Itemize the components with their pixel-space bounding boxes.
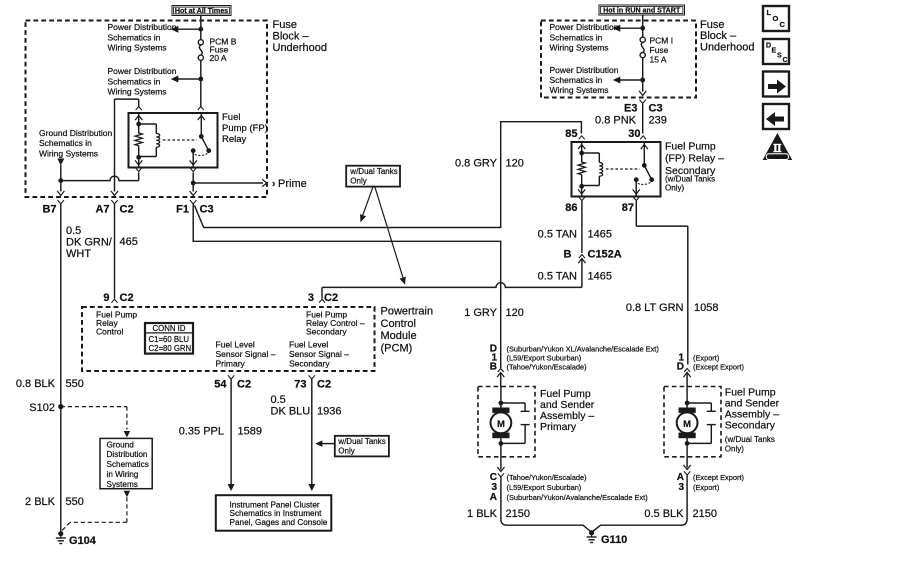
svg-text:w/Dual Tanks: w/Dual Tanks <box>337 437 385 446</box>
svg-text:(Tahoe/Yukon/Escalade): (Tahoe/Yukon/Escalade) <box>507 473 587 482</box>
svg-text:550: 550 <box>66 496 84 508</box>
svg-text:1936: 1936 <box>317 406 341 418</box>
svg-text:Control: Control <box>381 318 416 330</box>
svg-text:30: 30 <box>628 128 640 140</box>
svg-text:C2=80 GRN: C2=80 GRN <box>149 344 192 353</box>
svg-text:C2: C2 <box>317 379 331 391</box>
svg-text:Wiring Systems: Wiring Systems <box>108 86 167 96</box>
svg-text:(w/Dual Tanks: (w/Dual Tanks <box>725 435 775 444</box>
svg-text:1589: 1589 <box>238 426 262 438</box>
svg-text:120: 120 <box>506 158 524 170</box>
svg-text:239: 239 <box>649 115 667 127</box>
svg-text:Only): Only) <box>665 184 684 193</box>
svg-text:Systems: Systems <box>107 480 138 489</box>
svg-text:C1=60 BLU: C1=60 BLU <box>149 335 190 344</box>
svg-text:87: 87 <box>622 202 634 214</box>
svg-text:DK GRN/: DK GRN/ <box>66 237 113 249</box>
svg-text:C3: C3 <box>649 103 663 115</box>
svg-text:(Suburban/Yukon XL/Avalanche/E: (Suburban/Yukon XL/Avalanche/Escalade Ex… <box>507 345 659 354</box>
svg-text:Only: Only <box>338 446 354 455</box>
svg-text:Block –: Block – <box>700 30 737 42</box>
svg-text:54: 54 <box>214 379 227 391</box>
svg-text:C2: C2 <box>120 204 134 216</box>
svg-text:E: E <box>772 48 777 55</box>
svg-text:Ground Distribution: Ground Distribution <box>39 128 113 138</box>
svg-text:86: 86 <box>565 202 577 214</box>
svg-text:(L59/Export Suburban): (L59/Export Suburban) <box>507 353 582 362</box>
svg-text:w/Dual Tanks: w/Dual Tanks <box>349 167 397 176</box>
svg-text:465: 465 <box>120 236 138 248</box>
svg-text:C3: C3 <box>200 204 214 216</box>
svg-text:0.5 TAN: 0.5 TAN <box>538 229 577 241</box>
svg-text:120: 120 <box>506 307 524 319</box>
svg-text:Ground: Ground <box>107 440 135 449</box>
svg-text:C: C <box>783 57 788 64</box>
svg-text:Fuse: Fuse <box>650 45 669 55</box>
svg-text:(Tahoe/Yukon/Escalade): (Tahoe/Yukon/Escalade) <box>507 362 587 371</box>
svg-text:Schematics in: Schematics in <box>108 32 161 42</box>
svg-text:Prime: Prime <box>278 178 307 190</box>
svg-text:2 BLK: 2 BLK <box>25 496 56 508</box>
svg-text:15 A: 15 A <box>650 55 667 65</box>
svg-text:A7: A7 <box>95 204 109 216</box>
svg-text:0.8 PNK: 0.8 PNK <box>595 115 637 127</box>
svg-text:PCM I: PCM I <box>650 36 674 46</box>
svg-text:WHT: WHT <box>66 248 91 260</box>
svg-text:(PCM): (PCM) <box>381 342 413 354</box>
svg-text:(L59/Export Suburban): (L59/Export Suburban) <box>507 483 582 492</box>
svg-text:Underhood: Underhood <box>273 42 327 54</box>
svg-text:Wiring Systems: Wiring Systems <box>39 148 98 158</box>
svg-text:M: M <box>497 419 505 430</box>
svg-text:DK BLU: DK BLU <box>271 406 311 418</box>
svg-text:›: › <box>272 179 275 190</box>
svg-text:Secondary: Secondary <box>289 358 330 368</box>
svg-text:F1: F1 <box>176 204 189 216</box>
svg-text:L: L <box>767 8 772 17</box>
svg-text:B7: B7 <box>42 204 56 216</box>
svg-text:(Export): (Export) <box>693 353 719 362</box>
svg-text:A: A <box>490 492 497 503</box>
svg-text:Power Distribution: Power Distribution <box>108 22 177 32</box>
svg-text:(Export): (Export) <box>693 483 719 492</box>
svg-text:Secondary: Secondary <box>306 327 347 337</box>
svg-text:Primary: Primary <box>540 421 577 433</box>
svg-text:Fuel: Fuel <box>222 112 240 123</box>
svg-text:0.35 PPL: 0.35 PPL <box>179 426 224 438</box>
svg-text:Fuse: Fuse <box>700 19 724 31</box>
svg-text:9: 9 <box>103 292 109 304</box>
svg-text:(FP) Relay –: (FP) Relay – <box>665 153 724 165</box>
svg-text:Secondary: Secondary <box>725 420 776 432</box>
svg-text:Only: Only <box>350 177 366 186</box>
svg-text:B: B <box>490 361 497 372</box>
svg-text:0.8 GRY: 0.8 GRY <box>455 158 498 170</box>
svg-text:Wiring Systems: Wiring Systems <box>108 43 167 53</box>
svg-text:1465: 1465 <box>588 229 612 241</box>
svg-text:2150: 2150 <box>693 508 717 520</box>
svg-text:Distribution: Distribution <box>107 450 148 459</box>
svg-text:Schematics in: Schematics in <box>550 75 603 85</box>
svg-text:550: 550 <box>66 378 84 390</box>
svg-text:Wiring Systems: Wiring Systems <box>550 85 609 95</box>
svg-text:Power Distribution: Power Distribution <box>108 66 177 76</box>
svg-text:Fuse: Fuse <box>273 19 297 31</box>
svg-text:C2: C2 <box>120 292 134 304</box>
svg-text:in Wiring: in Wiring <box>107 470 139 479</box>
svg-text:S102: S102 <box>29 402 55 414</box>
svg-text:O: O <box>773 14 779 23</box>
svg-text:1 GRY: 1 GRY <box>464 307 497 319</box>
svg-text:Primary: Primary <box>216 358 246 368</box>
svg-text:3: 3 <box>678 482 684 493</box>
svg-text:S: S <box>777 53 782 60</box>
svg-text:M: M <box>683 419 691 430</box>
svg-text:Schematics in: Schematics in <box>550 32 603 42</box>
svg-text:0.5 TAN: 0.5 TAN <box>538 271 577 283</box>
svg-text:Hot at All Times: Hot at All Times <box>175 7 228 15</box>
svg-text:Underhood: Underhood <box>700 41 754 53</box>
svg-text:1465: 1465 <box>588 271 612 283</box>
svg-text:Block –: Block – <box>273 31 310 43</box>
svg-text:Hot in RUN and START: Hot in RUN and START <box>603 6 681 14</box>
svg-text:C2: C2 <box>237 379 251 391</box>
svg-text:Pump (FP): Pump (FP) <box>222 123 268 134</box>
svg-text:Fuel Pump: Fuel Pump <box>665 141 716 153</box>
svg-text:Module: Module <box>381 330 417 342</box>
svg-text:E3: E3 <box>624 103 637 115</box>
svg-text:85: 85 <box>565 128 577 140</box>
svg-text:Panel, Gages and Console: Panel, Gages and Console <box>230 518 328 527</box>
svg-text:20 A: 20 A <box>210 53 227 63</box>
svg-text:Schematics: Schematics <box>107 460 149 469</box>
svg-text:Power Distribution: Power Distribution <box>550 22 619 32</box>
svg-text:0.8 BLK: 0.8 BLK <box>16 378 56 390</box>
svg-text:Wiring Systems: Wiring Systems <box>550 43 609 53</box>
svg-text:G104: G104 <box>69 535 97 547</box>
svg-text:(Except Export): (Except Export) <box>693 473 744 482</box>
svg-text:1058: 1058 <box>694 302 718 314</box>
svg-text:D: D <box>766 43 771 50</box>
svg-text:0.8 LT GRN: 0.8 LT GRN <box>626 302 684 314</box>
svg-text:OBD II: OBD II <box>770 155 786 161</box>
svg-text:C152A: C152A <box>588 249 622 261</box>
svg-text:0.5: 0.5 <box>271 394 286 406</box>
svg-text:Only): Only) <box>725 445 744 454</box>
svg-text:G110: G110 <box>601 534 627 546</box>
svg-text:1 BLK: 1 BLK <box>467 508 498 520</box>
svg-text:Schematics in: Schematics in <box>39 138 92 148</box>
svg-text:0.5: 0.5 <box>66 225 81 237</box>
svg-text:(Suburban/Yukon/Avalanche/Esca: (Suburban/Yukon/Avalanche/Escalade Ext) <box>507 493 648 502</box>
svg-text:C2: C2 <box>324 292 338 304</box>
svg-text:B: B <box>564 249 572 261</box>
svg-text:Instrument Panel Cluster: Instrument Panel Cluster <box>230 500 320 509</box>
svg-text:Relay: Relay <box>222 134 247 145</box>
svg-text:Schematics in Instrument: Schematics in Instrument <box>230 509 323 518</box>
svg-text:Powertrain: Powertrain <box>381 306 434 318</box>
svg-text:(Except Export): (Except Export) <box>693 362 744 371</box>
svg-text:(w/Dual Tanks: (w/Dual Tanks <box>665 175 715 184</box>
svg-text:3: 3 <box>308 292 314 304</box>
svg-text:Schematics in: Schematics in <box>108 76 161 86</box>
svg-text:Control: Control <box>96 327 124 337</box>
svg-text:2150: 2150 <box>506 508 530 520</box>
svg-text:CONN ID: CONN ID <box>153 324 186 333</box>
svg-text:D: D <box>677 361 684 372</box>
svg-text:0.5 BLK: 0.5 BLK <box>644 508 684 520</box>
svg-text:C: C <box>780 20 786 29</box>
svg-text:Power Distribution: Power Distribution <box>550 65 619 75</box>
svg-text:73: 73 <box>294 379 306 391</box>
